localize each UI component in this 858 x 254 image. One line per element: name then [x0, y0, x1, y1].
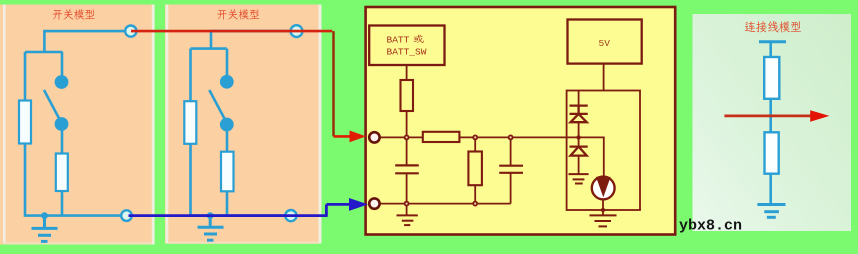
wire p2 below switch to resistor2 [226, 130, 229, 152]
resistor p1 R2 [56, 154, 68, 192]
wire LED bottom stub [602, 199, 604, 210]
junction node E (cap1 bottom / ground) [405, 202, 409, 206]
panel 2 left light stripe [166, 5, 169, 244]
wire LED ground stub [602, 210, 604, 215]
wire red vertical (dark) [332, 31, 334, 136]
svg-text:BATT: BATT [387, 34, 410, 45]
junction node G (LED bottom) [601, 208, 605, 212]
wire bottom row y203.6 [380, 203, 511, 205]
wire p1 resistor2 to bottom wire [61, 191, 64, 216]
wire T to resistor [769, 42, 772, 58]
resistor link R2 [765, 132, 779, 173]
arrowhead red into terminal [350, 131, 367, 143]
panel 2 right light stripe [319, 5, 322, 244]
diode D2 (pointing up) [570, 147, 588, 156]
ground main (below cap1 node) [397, 215, 418, 225]
wire p1 top from terminal to corner [44, 31, 124, 52]
terminal p2 top [291, 25, 303, 37]
panel 1 left light stripe [3, 5, 6, 245]
title 连接线模型 right panel [745, 21, 801, 32]
wire main row y137 [380, 136, 423, 138]
wire p2 resistor1 bottom to bottom wire [189, 144, 192, 216]
wire after h-resistor [459, 137, 603, 177]
wire blue bottom horizontal [129, 214, 328, 217]
panel: switch model 1 (peach) [0, 5, 154, 245]
wire v-resistor bottom stub [474, 185, 476, 203]
wire bottom ground stub (cap1 node) [406, 204, 408, 216]
wire between diodes [578, 122, 580, 146]
wire p1 switch stub [61, 52, 64, 76]
diode D1 (double-bar cathode, pointing up) [570, 106, 588, 123]
panel: power model (yellow, maroon border) [366, 7, 676, 235]
junction dot p2 ground node [207, 212, 214, 219]
resistor load (vertical) [468, 152, 482, 186]
ground LED [590, 215, 617, 226]
wire cap2 top stub [510, 137, 512, 165]
ground p1 [32, 216, 58, 242]
wire p2 switch stub [226, 49, 229, 75]
wire red lower horizontal [334, 135, 352, 138]
switch blade p1 [44, 90, 62, 123]
terminal yellow input 1 [369, 132, 379, 142]
wire BATT box to resistor [406, 65, 408, 80]
wire p2 resistor2 to bottom wire [226, 191, 229, 215]
capacitor C2 [499, 166, 523, 173]
switch contact dot lower p2 [220, 118, 234, 132]
red arrow right panel [724, 115, 812, 118]
arrowhead blue into terminal [349, 198, 368, 211]
capacitor C1 [395, 165, 419, 173]
wire cap1 bottom stub [406, 173, 408, 203]
terminal p1 top [125, 26, 136, 37]
switch contact dot upper p2 [220, 75, 234, 89]
wire cap2 bottom stub [510, 173, 512, 204]
panel 1 right light stripe [152, 5, 155, 245]
wire p1 resistor1 bottom to bottom wire [25, 144, 121, 216]
wire p2 left branch down to resistor [189, 49, 192, 102]
resistor p2 R2 [221, 152, 234, 192]
switch contact dot lower p1 [55, 117, 69, 131]
title 开关模型 panel 2 [217, 9, 259, 19]
wire diode2 to ground [578, 156, 580, 175]
wire resistor2 to ground [769, 174, 772, 205]
wire p1 left branch down to resistor [24, 52, 27, 101]
wire p2 upper horizontal [191, 47, 227, 50]
LED indicator [592, 177, 615, 200]
resistor series (horizontal) [423, 132, 460, 142]
wire p1 below switch to resistor2 [61, 130, 64, 154]
terminal p1 bottom [121, 210, 132, 221]
panel: switch model 2 (peach) [165, 5, 322, 244]
ground right panel [757, 205, 785, 218]
wire cap1 top stub [406, 137, 408, 165]
wire red top horizontal [131, 30, 332, 33]
resistor p2 R1 [184, 101, 196, 144]
switch contact dot upper p1 [55, 75, 69, 89]
junction node C (cap2 top) [509, 135, 513, 139]
wire 5V box down to loop [603, 64, 605, 91]
resistor link R1 [764, 57, 779, 99]
top T bar [759, 40, 786, 43]
svg-text:ybx8.cn: ybx8.cn [679, 218, 742, 235]
loop rectangle [567, 91, 640, 211]
junction node F (load resistor bottom) [473, 202, 477, 206]
box BATT [369, 26, 444, 66]
wire p2 bottom horizontal [191, 214, 286, 217]
junction dot p1 ground node [41, 212, 48, 219]
ground diode chain [569, 174, 589, 183]
wire resistor to node row [406, 111, 408, 137]
resistor batt (vertical) [401, 80, 414, 111]
title 开关模型 panel 1 [53, 9, 95, 19]
box 5V [568, 20, 642, 64]
svg-text:5V: 5V [599, 38, 611, 49]
wire p2 top from terminal to corner [211, 31, 291, 48]
wire blue upper horizontal [326, 203, 350, 206]
junction node B (series resistor / load resistor) [473, 135, 477, 139]
terminal p2 bottom [285, 210, 296, 221]
wire p1 upper horizontal [25, 51, 63, 54]
svg-text:BATT_SW: BATT_SW [387, 47, 427, 58]
junction node D (diode chain mid) [576, 135, 580, 139]
resistor p1 R1 [19, 101, 31, 144]
panel 2 bottom light stripe [168, 242, 319, 244]
wire diode chain top [578, 90, 580, 105]
wire v-resistor top stub [474, 137, 476, 151]
junction node A (batt/cap1 on main row) [405, 135, 409, 139]
wire blue jog vertical [325, 204, 328, 215]
terminal yellow input 2 [369, 198, 379, 208]
wire between resistors [769, 99, 772, 133]
switch blade p2 [209, 90, 227, 123]
panel 1 bottom light stripe [3, 242, 152, 244]
ground p2 [198, 216, 224, 241]
